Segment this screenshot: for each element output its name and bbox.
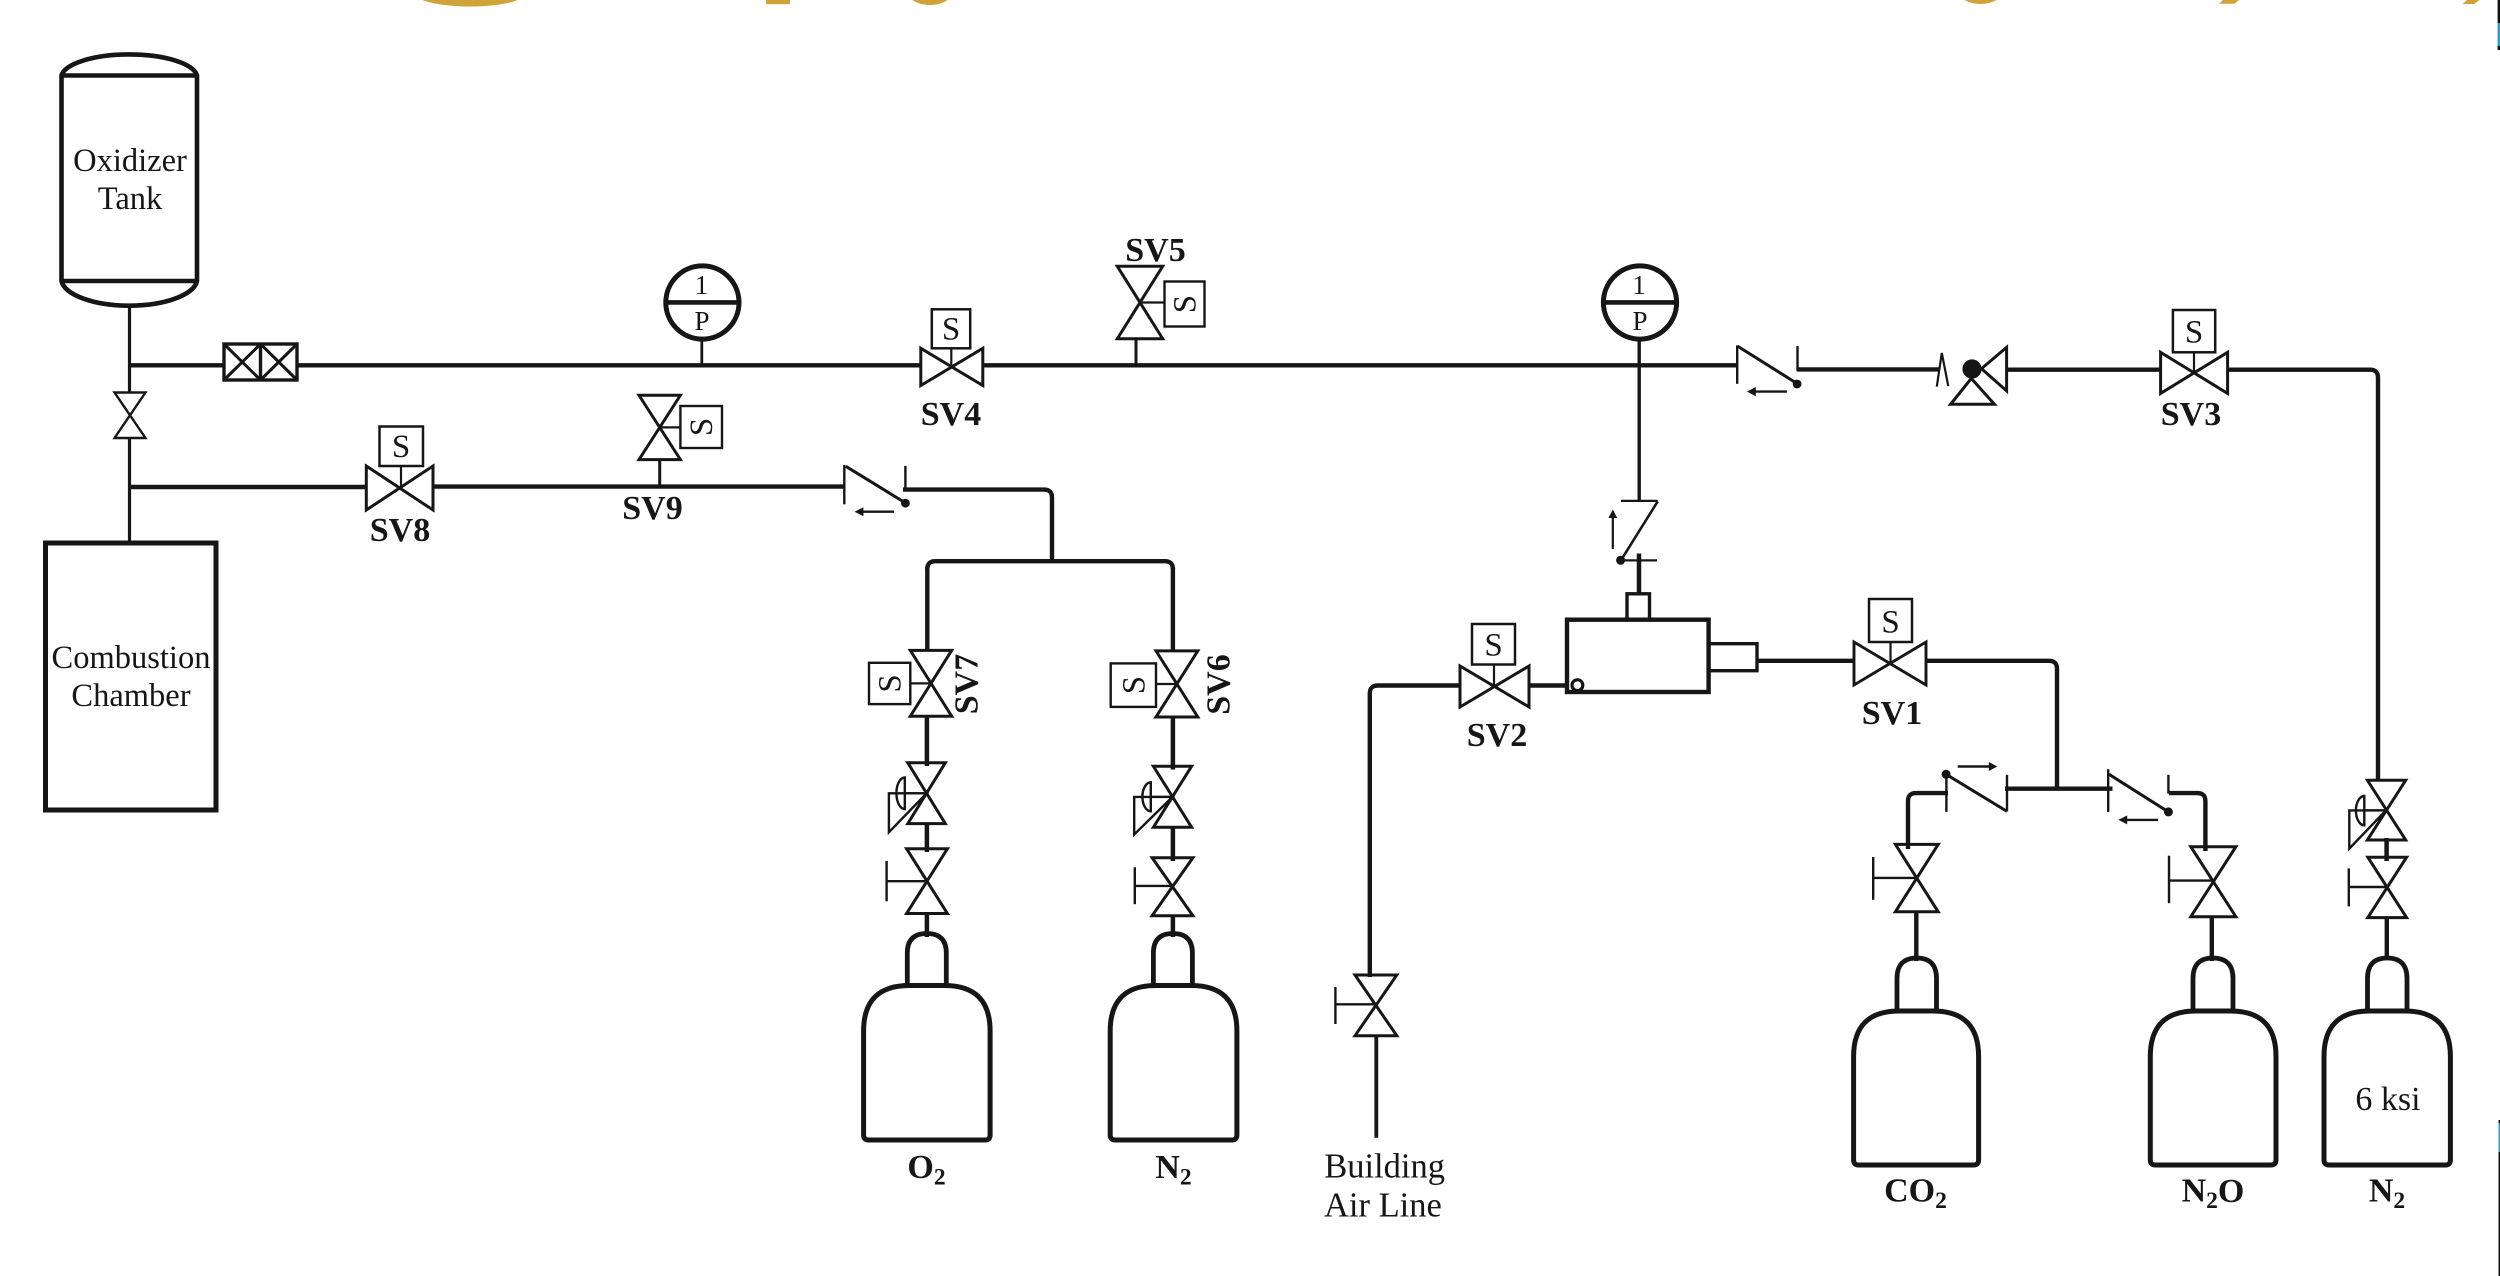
O2 bottle: [864, 934, 991, 1191]
solenoid valve SV4: [921, 309, 983, 433]
solenoid valve SV7: [869, 650, 986, 716]
N2 bottle: [1110, 934, 1237, 1191]
pressure gauge P2: [1603, 266, 1676, 339]
svg-text:1: 1: [695, 270, 709, 300]
wire: SV2 to actuator: [1529, 683, 1567, 687]
svg-text:P: P: [1632, 306, 1647, 336]
wire: building air line riser and SV2 feed: [1370, 686, 1460, 978]
svg-text:6 ksi: 6 ksi: [2355, 1081, 2420, 1118]
svg-text:S: S: [1484, 628, 1502, 664]
pressure regulator (O2 branch): [889, 763, 945, 832]
wire: SV3 right, corner down to N2 column: [2228, 370, 2378, 781]
relief ball valve with spring: [1937, 347, 2007, 404]
wire: check valve right, corner down to line3: [903, 490, 1052, 562]
svg-text:Combustion: Combustion: [52, 640, 211, 676]
svg-text:Building: Building: [1324, 1148, 1445, 1186]
svg-text:S: S: [873, 674, 909, 692]
pressure regulator (N2 branch): [1134, 766, 1191, 834]
building air line label: [1324, 1148, 1445, 1225]
wire: N2O check valve right, corner down to N2O valve: [2169, 793, 2206, 851]
svg-text:S: S: [1116, 676, 1152, 694]
manual valve (CO2 bottle): [1873, 844, 1938, 911]
check valve on main line: [1737, 345, 1801, 396]
svg-text:SV4: SV4: [921, 396, 981, 433]
svg-text:SV7: SV7: [949, 654, 986, 714]
svg-text:SV3: SV3: [2161, 396, 2221, 433]
wire: CO2 valve to bottle: [1914, 912, 1918, 961]
wire: CO2 check valve left, corner down to CO2 valve: [1908, 793, 1948, 849]
wire: line2 tee from tank vertical to SV8: [130, 485, 367, 489]
check valve (CO2 branch, flow right): [1942, 762, 2007, 812]
wire: needle valve to 6ksi N2 bottle: [2385, 918, 2389, 958]
solenoid valve SV1: [1854, 599, 1926, 732]
wire: needle valve to N2 bottle: [1171, 916, 1176, 937]
svg-text:SV6: SV6: [1201, 654, 1238, 714]
solenoid valve SV8: [366, 427, 433, 550]
wire: regulator to O2 needle valve: [925, 824, 930, 852]
gold title fragment: slanted mark far right: [2463, 0, 2480, 4]
solenoid valve SV9 (on stub above line2): [622, 395, 722, 527]
building air line needle valve: [1335, 975, 1396, 1036]
wire: ball valve to SV3: [2008, 368, 2161, 372]
gold title fragment: descender arc of letter g (mid-left): [909, 0, 952, 5]
hand valve below tank (vertical bowtie): [115, 393, 146, 439]
manual needle valve (N2 branch): [1135, 858, 1193, 916]
solenoid valve SV6: [1111, 651, 1238, 717]
wire: filter to SV4: [297, 363, 921, 367]
wire: regulator to 6ksi needle valve: [2384, 838, 2389, 861]
svg-text:SV5: SV5: [1125, 232, 1185, 269]
wire: SV6 to N2 regulator: [1171, 717, 1176, 770]
svg-text:Air Line: Air Line: [1324, 1186, 1442, 1224]
wire: junction to CO2 check valve: [2005, 787, 2057, 791]
svg-text:S: S: [2185, 315, 2203, 351]
inline filter (double crossed box): [224, 344, 297, 380]
manual needle valve (O2 branch): [887, 849, 948, 914]
N2 6ksi bottle: [2324, 958, 2450, 1214]
wire: regulator to N2 needle valve: [1171, 827, 1176, 861]
CO2 bottle: [1854, 958, 1979, 1214]
wire: check valve to relief ball valve: [1797, 367, 1940, 371]
wire: N2O valve to bottle: [2210, 917, 2214, 961]
manual valve (N2O bottle): [2169, 847, 2236, 917]
svg-text:Oxidizer: Oxidizer: [73, 143, 187, 179]
wire: SV4 to check valve: [983, 363, 1738, 367]
svg-text:S: S: [1168, 295, 1204, 313]
wire: gauge P2 down through main line to vent: [1637, 339, 1640, 500]
pressure regulator (6 ksi N2 column): [2349, 780, 2405, 848]
wire: SV8 to check valve: [433, 484, 845, 488]
wire: actuator port to SV1: [1757, 659, 1854, 663]
vent relief symbol above actuator: [1608, 501, 1657, 565]
svg-text:S: S: [942, 312, 960, 348]
wire: line3 header over SV7 and SV6: [927, 561, 1173, 652]
solenoid valve SV5 (on stub above main line): [1117, 232, 1204, 365]
gold title fragment: descender arc of letter g (left): [412, 0, 528, 7]
pressure gauge P1: [666, 266, 739, 364]
svg-text:P: P: [694, 306, 709, 336]
svg-text:SV1: SV1: [1862, 695, 1922, 732]
solenoid valve SV2: [1460, 624, 1529, 754]
pneumatic actuator block: [1567, 594, 1757, 692]
svg-text:SV2: SV2: [1467, 717, 1527, 754]
right edge crop artifact (bottom): [2499, 1120, 2500, 1276]
check valve on line2: [844, 465, 910, 516]
oxidizer tank: [62, 54, 198, 305]
wire: junction to N2O check valve: [2057, 787, 2113, 791]
wire: SV7 to O2 regulator: [925, 716, 930, 766]
wire: needle valve to O2 bottle: [925, 914, 930, 938]
wire: main line tank tee to filter: [130, 363, 225, 367]
svg-text:SV9: SV9: [622, 490, 682, 527]
gold title fragment: descender arc of letter g (mid-right): [1960, 0, 2002, 4]
gold title fragment: slanted mark: [2219, 0, 2239, 4]
wire: hand valve to combustion chamber: [128, 438, 131, 543]
check valve (N2O branch, flow left): [2108, 769, 2173, 824]
svg-text:1: 1: [1632, 270, 1646, 300]
right edge crop artifact (top): [2498, 0, 2500, 50]
wire: vent to actuator top port: [1637, 554, 1642, 595]
combustion chamber: [46, 543, 217, 810]
gold title fragment: stem of letter p: [766, 0, 790, 4]
svg-text:SV8: SV8: [370, 512, 430, 549]
wire: building air line inlet: [1374, 1036, 1378, 1138]
solenoid valve SV3: [2161, 310, 2228, 433]
N2O bottle: [2150, 958, 2276, 1214]
svg-text:S: S: [392, 429, 410, 465]
svg-text:Chamber: Chamber: [71, 678, 190, 714]
svg-text:Tank: Tank: [98, 181, 163, 217]
manual needle valve (6 ksi N2): [2349, 857, 2407, 917]
svg-text:S: S: [1881, 605, 1899, 641]
svg-text:S: S: [684, 418, 720, 436]
wire: SV1 right, corner down to CO2/N2O junction: [1926, 661, 2057, 789]
wire: tank outlet down to main line and hand valve: [128, 306, 131, 392]
